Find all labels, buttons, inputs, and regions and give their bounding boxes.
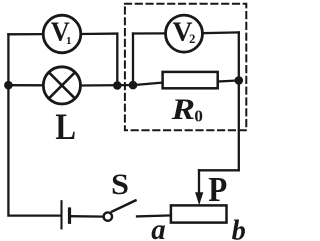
svg-text:R: R	[170, 93, 195, 126]
svg-text:1: 1	[66, 35, 72, 47]
svg-text:b: b	[232, 215, 246, 241]
svg-text:S: S	[111, 169, 129, 201]
svg-text:0: 0	[194, 107, 203, 126]
svg-text:2: 2	[189, 32, 195, 46]
svg-text:a: a	[151, 213, 165, 241]
svg-text:L: L	[55, 107, 76, 148]
svg-text:P: P	[208, 170, 227, 209]
